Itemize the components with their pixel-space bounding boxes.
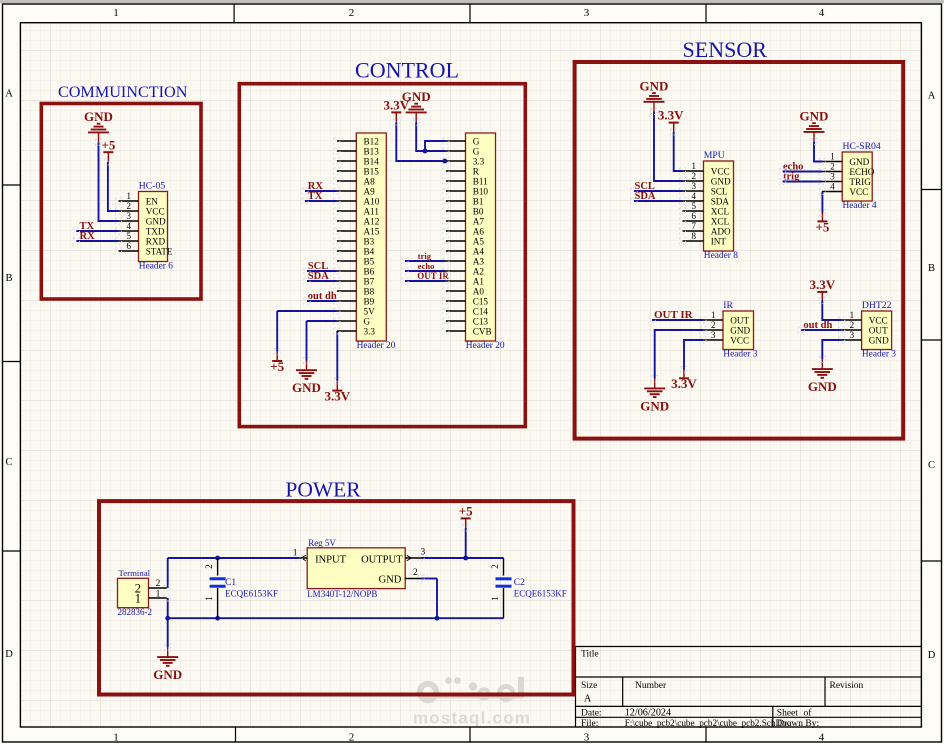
svg-text:C1: C1 — [225, 578, 236, 588]
svg-text:OUT IR: OUT IR — [654, 309, 694, 321]
svg-text:2: 2 — [830, 162, 835, 172]
svg-text:Header 3: Header 3 — [723, 350, 757, 360]
svg-text:A: A — [928, 91, 936, 102]
svg-text:3: 3 — [127, 211, 132, 221]
svg-text:RX: RX — [80, 231, 96, 242]
svg-text:XCL: XCL — [711, 216, 730, 226]
svg-text:B14: B14 — [364, 156, 380, 166]
svg-text:1: 1 — [156, 589, 161, 599]
svg-text:Revision: Revision — [830, 681, 864, 691]
svg-text:A11: A11 — [364, 206, 380, 216]
svg-text:3: 3 — [692, 181, 697, 191]
svg-text:3.3: 3.3 — [473, 156, 485, 166]
svg-text:echo: echo — [418, 261, 435, 271]
svg-text:A0: A0 — [473, 286, 485, 296]
svg-text:2: 2 — [349, 7, 355, 19]
svg-text:CONTROL: CONTROL — [355, 58, 459, 83]
svg-text:GND: GND — [640, 398, 669, 413]
svg-text:A4: A4 — [473, 246, 485, 256]
svg-text:3: 3 — [584, 7, 590, 19]
svg-text:G: G — [473, 146, 480, 156]
svg-text:Header 20: Header 20 — [466, 341, 505, 351]
svg-text:6: 6 — [127, 241, 132, 251]
svg-text:A9: A9 — [364, 186, 376, 196]
svg-text:Reg 5V: Reg 5V — [308, 538, 336, 548]
svg-text:GND: GND — [711, 176, 731, 186]
svg-text:GND: GND — [379, 575, 402, 586]
svg-text:B9: B9 — [364, 296, 375, 306]
svg-text:DHT22: DHT22 — [862, 300, 892, 311]
svg-text:3.3V: 3.3V — [383, 98, 409, 113]
svg-text:1: 1 — [830, 152, 835, 162]
svg-text:A8: A8 — [364, 176, 376, 186]
svg-text:SDA: SDA — [635, 191, 656, 202]
svg-text:6: 6 — [692, 211, 697, 221]
svg-text:Drawn By:: Drawn By: — [777, 719, 819, 729]
svg-text:GND: GND — [849, 157, 869, 167]
svg-text:Terminal: Terminal — [119, 568, 151, 578]
svg-text:+5: +5 — [270, 359, 284, 374]
svg-text:VCC: VCC — [849, 187, 868, 197]
svg-text:SDA: SDA — [711, 196, 730, 206]
svg-text:B: B — [5, 273, 12, 284]
svg-text:G: G — [473, 136, 480, 146]
svg-text:Header 20: Header 20 — [357, 341, 396, 351]
svg-text:STATE: STATE — [146, 246, 173, 256]
svg-text:4: 4 — [830, 182, 835, 192]
svg-text:5V: 5V — [364, 306, 376, 316]
svg-text:LM340T-12/NOPB: LM340T-12/NOPB — [307, 589, 377, 599]
svg-text:2: 2 — [349, 732, 355, 744]
svg-text:282836-2: 282836-2 — [118, 607, 153, 617]
svg-text:B5: B5 — [364, 256, 375, 266]
svg-text:C15: C15 — [473, 296, 489, 306]
svg-text:3.3V: 3.3V — [809, 277, 835, 292]
svg-text:POWER: POWER — [285, 478, 361, 502]
svg-text:1: 1 — [692, 161, 697, 171]
svg-text:3: 3 — [584, 732, 590, 744]
svg-text:ECHO: ECHO — [849, 167, 874, 177]
svg-text:2: 2 — [156, 579, 161, 589]
svg-text:CVB: CVB — [473, 326, 492, 336]
svg-text:ADO: ADO — [711, 226, 731, 236]
svg-text:Number: Number — [635, 681, 667, 691]
svg-text:B7: B7 — [364, 276, 375, 286]
svg-text:out dh: out dh — [803, 320, 832, 331]
svg-text:OUT: OUT — [730, 315, 749, 325]
svg-text:1: 1 — [293, 549, 298, 559]
svg-text:1: 1 — [135, 592, 141, 606]
svg-text:1: 1 — [127, 191, 132, 201]
svg-text:3: 3 — [830, 172, 835, 182]
svg-text:+5: +5 — [815, 219, 829, 234]
svg-text:A5: A5 — [473, 236, 485, 246]
svg-text:SENSOR: SENSOR — [683, 37, 768, 62]
svg-text:C: C — [928, 460, 935, 471]
svg-text:HC-SR04: HC-SR04 — [843, 141, 881, 152]
svg-text:GND: GND — [146, 216, 166, 226]
svg-text:A: A — [584, 694, 592, 705]
svg-text:OUT IR: OUT IR — [417, 271, 449, 281]
svg-text:A15: A15 — [364, 226, 380, 236]
svg-text:D: D — [928, 650, 936, 661]
svg-text:INT: INT — [711, 236, 727, 246]
svg-text:Header 3: Header 3 — [862, 350, 896, 360]
svg-text:A6: A6 — [473, 226, 485, 236]
svg-text:2: 2 — [711, 320, 716, 330]
svg-text:1: 1 — [113, 732, 119, 744]
svg-text:GND: GND — [292, 380, 321, 395]
svg-text:C2: C2 — [514, 578, 525, 588]
svg-text:GND: GND — [153, 667, 182, 682]
svg-text:3: 3 — [711, 330, 716, 340]
svg-text:Header 8: Header 8 — [704, 251, 738, 261]
svg-text:5: 5 — [692, 201, 697, 211]
svg-text:A12: A12 — [364, 216, 380, 226]
svg-text:12/06/2024: 12/06/2024 — [625, 707, 671, 718]
svg-text:+5: +5 — [101, 137, 115, 152]
svg-text:of: of — [804, 707, 813, 718]
svg-text:1: 1 — [850, 310, 855, 320]
svg-text:1: 1 — [204, 596, 214, 601]
svg-text:OUT: OUT — [869, 325, 888, 335]
svg-text:2: 2 — [850, 320, 855, 330]
svg-text:SCL: SCL — [711, 186, 728, 196]
svg-text:B1: B1 — [473, 196, 484, 206]
svg-text:VCC: VCC — [730, 335, 749, 345]
svg-text:Size: Size — [581, 681, 597, 691]
svg-text:File:: File: — [581, 719, 598, 729]
svg-text:Title: Title — [581, 650, 599, 660]
svg-text:2: 2 — [692, 171, 697, 181]
svg-text:D: D — [5, 649, 13, 660]
svg-text:4: 4 — [127, 221, 132, 231]
svg-text:A7: A7 — [473, 216, 485, 226]
svg-text:INPUT: INPUT — [315, 554, 347, 565]
svg-text:TRIG: TRIG — [849, 177, 871, 187]
svg-text:GND: GND — [800, 108, 829, 123]
svg-text:4: 4 — [819, 7, 825, 19]
svg-text:ECQE6153KF: ECQE6153KF — [225, 589, 278, 599]
svg-text:B6: B6 — [364, 266, 375, 276]
svg-text:VCC: VCC — [869, 315, 888, 325]
svg-text:G: G — [364, 316, 371, 326]
svg-text:A2: A2 — [473, 266, 485, 276]
svg-text:TX: TX — [308, 191, 323, 202]
svg-text:A: A — [5, 89, 13, 100]
svg-text:8: 8 — [692, 231, 697, 241]
svg-text:SDA: SDA — [308, 271, 329, 282]
svg-text:RXD: RXD — [146, 236, 166, 246]
svg-text:mostaql.com: mostaql.com — [413, 709, 531, 728]
svg-text:1: 1 — [711, 310, 716, 320]
svg-text:EN: EN — [146, 196, 159, 206]
svg-text:5: 5 — [127, 231, 132, 241]
svg-text:TXD: TXD — [146, 226, 165, 236]
svg-text:C13: C13 — [473, 316, 489, 326]
svg-text:+5: +5 — [459, 504, 473, 519]
svg-text:1: 1 — [490, 596, 500, 601]
svg-text:1: 1 — [113, 7, 119, 19]
svg-text:GND: GND — [808, 379, 837, 394]
svg-text:GND: GND — [84, 109, 113, 124]
svg-text:R: R — [473, 166, 480, 176]
svg-text:XCL: XCL — [711, 206, 730, 216]
svg-text:3.3V: 3.3V — [324, 389, 350, 404]
svg-text:MPU: MPU — [704, 150, 725, 161]
svg-text:2: 2 — [413, 568, 418, 578]
svg-text:Sheet: Sheet — [777, 708, 798, 718]
svg-text:B8: B8 — [364, 286, 375, 296]
svg-text:HC-05: HC-05 — [139, 181, 166, 192]
svg-text:B10: B10 — [473, 186, 489, 196]
svg-text:ECQE6153KF: ECQE6153KF — [514, 589, 567, 599]
svg-text:B: B — [928, 263, 935, 274]
svg-text:B15: B15 — [364, 166, 380, 176]
svg-text:3: 3 — [850, 330, 855, 340]
svg-text:B11: B11 — [473, 176, 488, 186]
svg-text:A1: A1 — [473, 276, 485, 286]
svg-text:3: 3 — [421, 548, 426, 558]
svg-text:GND: GND — [730, 325, 750, 335]
svg-text:C: C — [5, 457, 12, 468]
svg-text:A10: A10 — [364, 196, 380, 206]
svg-text:3.3V: 3.3V — [671, 376, 697, 391]
svg-text:B13: B13 — [364, 146, 380, 156]
svg-text:VCC: VCC — [711, 166, 730, 176]
svg-text:3.3V: 3.3V — [658, 108, 684, 123]
svg-text:Header 4: Header 4 — [843, 201, 877, 211]
svg-text:3.3: 3.3 — [364, 326, 376, 336]
svg-text:OUTPUT: OUTPUT — [361, 554, 403, 565]
svg-text:C14: C14 — [473, 306, 489, 316]
svg-text:IR: IR — [723, 300, 733, 311]
svg-text:out dh: out dh — [308, 291, 337, 302]
svg-text:2: 2 — [490, 564, 500, 569]
svg-text:4: 4 — [819, 732, 825, 744]
svg-text:GND: GND — [640, 78, 669, 93]
svg-text:7: 7 — [692, 221, 697, 231]
svg-text:A3: A3 — [473, 256, 485, 266]
svg-text:VCC: VCC — [146, 206, 165, 216]
svg-text:2: 2 — [127, 201, 132, 211]
svg-text:2: 2 — [204, 564, 214, 569]
svg-text:B0: B0 — [473, 206, 484, 216]
svg-text:F:\cube_pcb2\cube_pcb2\cube_pc: F:\cube_pcb2\cube_pcb2\cube_pcb2.SchDoc — [625, 718, 791, 728]
svg-text:COMMUINCTION: COMMUINCTION — [58, 83, 188, 101]
svg-text:trig: trig — [418, 251, 432, 261]
svg-text:B4: B4 — [364, 246, 375, 256]
svg-text:Date:: Date: — [581, 708, 602, 718]
svg-text:GND: GND — [869, 335, 889, 345]
svg-text:B12: B12 — [364, 136, 380, 146]
svg-text:B3: B3 — [364, 236, 375, 246]
svg-text:4: 4 — [692, 191, 697, 201]
svg-text:Header 6: Header 6 — [139, 262, 173, 272]
